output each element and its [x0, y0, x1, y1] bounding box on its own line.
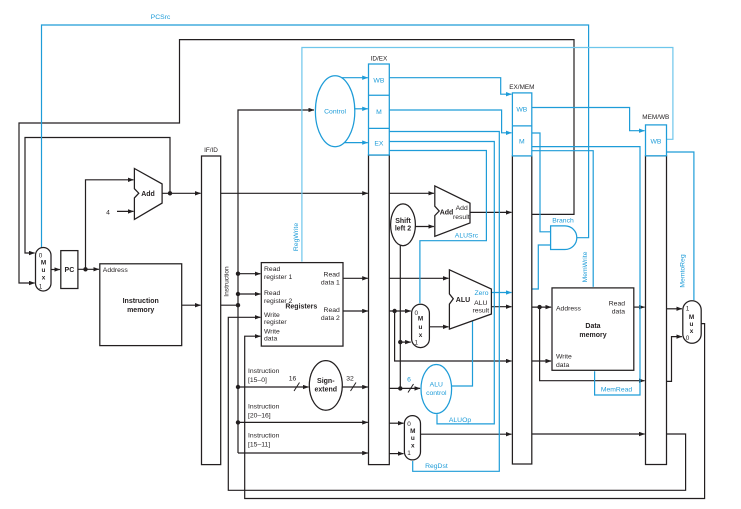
svg-text:Zero: Zero [475, 290, 489, 297]
wire EX/MEM ALU result down to MEM/WB [540, 307, 645, 381]
mux PC-source (0/1) [36, 248, 52, 292]
svg-text:0: 0 [39, 253, 43, 260]
svg-text:6: 6 [407, 377, 411, 384]
svg-text:Instruction: Instruction [248, 368, 280, 375]
svg-text:ALU: ALU [474, 300, 487, 307]
register PC [61, 251, 78, 289]
svg-text:RegDst: RegDst [425, 463, 448, 470]
wire write register number EX/MEM to MEM/WB [532, 433, 645, 435]
svg-text:ALUOp: ALUOp [449, 417, 472, 424]
svg-text:32: 32 [346, 376, 354, 383]
svg-text:Instruction: Instruction [224, 266, 231, 297]
wire EX/MEM ALU result to Data memory Address [532, 306, 551, 308]
svg-text:memory: memory [127, 307, 154, 314]
wire ALUOp from ID/EX EX to ALU control [389, 142, 494, 424]
mux RegDst (0/1) [404, 416, 420, 460]
svg-text:Add: Add [440, 209, 454, 216]
alu ALU [449, 270, 491, 329]
svg-text:data: data [556, 362, 569, 369]
node immediate junction at ID/EX output [398, 386, 402, 390]
svg-text:Address: Address [556, 306, 582, 313]
svg-text:M: M [689, 314, 694, 321]
svg-text:MemtoReg: MemtoReg [680, 254, 687, 287]
wire Add output to IF/ID [162, 192, 201, 194]
wire Read data 2 from ID/EX to ALU mux 0 [389, 310, 410, 312]
svg-text:data: data [612, 309, 625, 316]
svg-text:u: u [411, 435, 415, 442]
oval Control [315, 76, 354, 147]
svg-text:[20–16]: [20–16] [248, 413, 271, 420]
svg-text:M: M [376, 109, 382, 116]
svg-text:Write: Write [264, 312, 280, 319]
svg-text:MemWrite: MemWrite [582, 251, 589, 282]
svg-text:0: 0 [686, 335, 690, 342]
svg-text:ALUSrc: ALUSrc [455, 233, 479, 240]
svg-text:M: M [519, 139, 525, 146]
wire instruction 15-11 to ID/EX [238, 452, 368, 454]
wire Sign-extend output to ID/EX [342, 386, 368, 388]
wire PCSrc: AND gate output around top to PC mux select [42, 25, 589, 248]
svg-text:register 1: register 1 [264, 274, 293, 281]
wire MEM/WB ALU result to MemtoReg mux 0 [667, 337, 682, 382]
wire instruction 15-11 from ID/EX to RegDst mux 1 [389, 453, 403, 455]
pipeline register MEM/WB black bar [646, 156, 667, 465]
wire immediate riser to Shift left 2 and ALU mux 1 [399, 246, 401, 389]
wire PC to Instruction memory Address [78, 268, 99, 270]
gate AND (branch) [551, 226, 577, 250]
svg-text:Instruction: Instruction [123, 298, 159, 305]
svg-text:left 2: left 2 [395, 226, 411, 233]
svg-text:Read: Read [609, 301, 625, 308]
svg-text:x: x [690, 328, 694, 335]
wire 4 to Add bottom input [117, 210, 134, 212]
oval ALU control [421, 365, 452, 414]
node ALU result junction at Data memory address [537, 305, 541, 309]
wire MemtoReg from MEM/WB to mux select [667, 152, 694, 300]
wire Data memory Read data to MEM/WB [634, 306, 645, 308]
svg-text:WB: WB [373, 78, 384, 85]
svg-text:Branch: Branch [552, 218, 574, 225]
wire Zero from EX/MEM to AND gate [532, 245, 551, 289]
wire branch target: EX/MEM out, around top-left, to PC mux input 1 [19, 40, 574, 283]
wire MemRead from EX/MEM M to Data memory [532, 147, 640, 395]
pipeline register EX/MEM black bar [512, 156, 531, 464]
pipeline register EX/MEM control section WB/M [512, 93, 531, 156]
mux MemtoReg (1/0) [683, 301, 701, 343]
node instruction riser junction read register 2 [236, 292, 240, 296]
wire RegDst from ID/EX EX to RegDst mux [389, 132, 499, 472]
node PC address junction [83, 267, 87, 271]
svg-text:result: result [472, 308, 489, 315]
node read data 2 junction [392, 309, 396, 313]
wire sign-extended immediate from ID/EX to ALU control [389, 387, 420, 389]
wire instruction 20-16 from ID/EX to RegDst mux 0 [389, 422, 403, 424]
wire MemtoReg mux output write-back to Registers Write data [245, 324, 705, 499]
wire Instruction memory output to IF/ID [182, 304, 201, 306]
bus width slash 6 [408, 384, 414, 393]
svg-text:1: 1 [686, 305, 690, 312]
register file Registers [261, 263, 343, 347]
pipeline register MEM/WB control section WB [646, 125, 667, 156]
svg-text:register: register [264, 319, 287, 326]
svg-text:1: 1 [39, 284, 43, 291]
svg-text:data 1: data 1 [321, 280, 340, 287]
svg-text:Write: Write [264, 328, 280, 335]
oval Shift left 2 [391, 204, 416, 246]
wire Read data 2 to ID/EX [343, 310, 368, 312]
wire PC+4 from ID/EX to Add result adder [389, 192, 434, 194]
svg-text:Read: Read [264, 290, 280, 297]
svg-text:control: control [426, 390, 447, 397]
adder Add (PC+4) [134, 169, 162, 220]
svg-text:Shift: Shift [395, 218, 411, 225]
svg-text:Data: Data [585, 323, 600, 330]
wire instruction to Read register 1 [238, 273, 260, 275]
bus width slash 32 [351, 383, 357, 392]
node instruction riser junction read register 1 [236, 272, 240, 276]
svg-text:EX: EX [374, 141, 384, 148]
wire RegWrite from MEM/WB around top to Registers [302, 48, 673, 262]
wire Control to ID/EX WB [342, 77, 368, 79]
node PC+4 junction at Add output [168, 191, 172, 195]
svg-text:Add: Add [456, 205, 468, 212]
wire M signals ID/EX to EX/MEM [389, 110, 511, 133]
svg-text:u: u [42, 267, 46, 274]
bus width slash 16 [294, 383, 300, 392]
svg-text:Read: Read [324, 272, 340, 279]
svg-text:data 2: data 2 [321, 315, 340, 322]
svg-text:MEM/WB: MEM/WB [642, 114, 669, 121]
wire ALU mux output to ALU [429, 326, 448, 328]
svg-text:Instruction: Instruction [248, 433, 280, 440]
svg-text:ALU: ALU [456, 297, 470, 304]
svg-text:Read: Read [324, 307, 340, 314]
node instruction riser junction main [236, 303, 240, 307]
svg-text:ALU: ALU [430, 382, 443, 389]
wire MemWrite from EX/MEM M to Data memory [532, 151, 593, 287]
wire WB signals EX/MEM to MEM/WB [532, 108, 645, 131]
instruction memory [100, 264, 182, 346]
wire instruction 15-0 to Sign-extend [238, 386, 309, 388]
adder Add result (branch target) [435, 186, 470, 236]
wire MEM/WB read data to MemtoReg mux 1 [667, 308, 682, 310]
svg-text:Control: Control [324, 109, 346, 116]
svg-text:Sign-: Sign- [317, 378, 335, 385]
wire RegDst mux output to EX/MEM [421, 433, 512, 435]
svg-text:4: 4 [106, 210, 110, 217]
wire PC+4 loop: Add output up over to PC mux input 0 [25, 138, 170, 254]
svg-text:M: M [41, 260, 46, 267]
wire PC mux to PC [51, 269, 60, 271]
svg-text:x: x [419, 332, 423, 339]
wire instruction 20-16 to ID/EX [238, 421, 368, 423]
wire instruction to Read register 2 [238, 293, 260, 295]
oval Sign-extend [309, 361, 342, 411]
svg-text:[15–11]: [15–11] [248, 442, 270, 449]
svg-text:ID/EX: ID/EX [371, 56, 388, 63]
svg-text:PC: PC [65, 267, 75, 274]
wire Zero flag ALU to EX/MEM [491, 292, 511, 294]
wire Branch from EX/MEM M to AND gate [532, 133, 551, 232]
svg-text:result: result [453, 214, 470, 221]
wire ALU result to EX/MEM [491, 306, 511, 308]
wire Read data 1 from ID/EX to ALU [389, 277, 448, 279]
svg-text:WB: WB [516, 107, 527, 114]
svg-text:EX/MEM: EX/MEM [509, 84, 534, 91]
svg-text:PCSrc: PCSrc [151, 14, 171, 21]
data memory [552, 288, 634, 370]
svg-text:RegWrite: RegWrite [293, 223, 300, 251]
svg-text:0: 0 [407, 421, 411, 428]
wire Add result to EX/MEM [470, 211, 512, 213]
wire write register number feedback MEM/WB to Registers [228, 317, 685, 490]
svg-text:u: u [419, 324, 423, 331]
svg-text:MemRead: MemRead [601, 387, 633, 394]
svg-text:Read: Read [264, 266, 280, 273]
wire Shift left 2 to Add result adder [415, 226, 434, 228]
wire Read data 1 to ID/EX [343, 277, 368, 279]
svg-text:Add: Add [141, 191, 155, 198]
wire instruction riser from IF/ID [221, 304, 238, 306]
wire Read data 2 down to EX/MEM write data [395, 311, 512, 361]
svg-text:extend: extend [315, 387, 338, 394]
svg-text:x: x [411, 443, 415, 450]
svg-text:u: u [690, 321, 694, 328]
svg-text:memory: memory [579, 332, 606, 339]
svg-text:data: data [264, 335, 277, 342]
wire PC up to Add top input [86, 180, 134, 269]
pipeline register ID/EX control section WB/M/EX [369, 64, 390, 155]
svg-text:x: x [42, 275, 46, 282]
svg-text:[15–0]: [15–0] [248, 377, 267, 384]
svg-text:1: 1 [407, 450, 411, 457]
node instruction riser junction 20-16 [236, 420, 240, 424]
wire PC+4 from IF/ID to ID/EX [221, 192, 368, 194]
mux ALUSrc (0/1) [412, 304, 430, 347]
node instruction riser junction 15-0 [236, 385, 240, 389]
wire Control to ID/EX M [355, 108, 368, 110]
pipeline register ID/EX black bar [369, 155, 390, 465]
wire ALU control output to ALU [452, 321, 473, 386]
svg-text:IF/ID: IF/ID [204, 147, 218, 154]
svg-text:WB: WB [651, 138, 662, 145]
svg-text:16: 16 [289, 376, 297, 383]
svg-text:Address: Address [103, 267, 129, 274]
svg-text:Registers: Registers [285, 304, 317, 311]
svg-text:Write: Write [556, 354, 572, 361]
wire ALUSrc from ID/EX EX to ALU mux [389, 151, 486, 304]
svg-text:M: M [418, 316, 423, 323]
svg-text:Instruction: Instruction [248, 404, 280, 411]
wire WB signals ID/EX to EX/MEM [389, 78, 511, 95]
pipeline register IF/ID [202, 156, 221, 465]
node immediate junction at ALU mux 1 [398, 340, 402, 344]
wire EX/MEM write data to Data memory [532, 360, 551, 362]
svg-text:1: 1 [415, 340, 419, 347]
wire Control to ID/EX EX [344, 142, 368, 144]
